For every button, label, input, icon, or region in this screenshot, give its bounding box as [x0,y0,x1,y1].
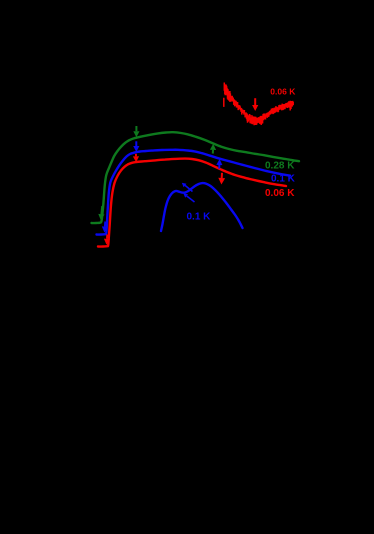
svg-text:0.28 K: 0.28 K [265,161,295,172]
arrow red inset down [254,98,256,105]
arrow blue bottomleft down [104,222,106,227]
arrow green bottomleft down [100,206,103,214]
arrow green right up [212,150,214,154]
arrow red top down [135,154,137,157]
curve red 0.06K main [98,159,286,247]
arrow red bottomleft down [106,235,108,239]
arrow red right down [221,173,223,178]
curve blue inner 0.1K [161,183,243,231]
svg-text:0.1 K: 0.1 K [187,212,212,223]
arrow green top down [135,126,137,131]
arrow blue inner upper diagonal [185,185,192,191]
curve blue 0.1K main [97,150,291,235]
arrow blue top down [135,141,137,146]
arrow blue inner lower diagonal [187,196,195,202]
scatter red 0.06K noisy data [224,83,293,126]
svg-text:0.1 K: 0.1 K [271,173,296,184]
svg-text:0.06 K: 0.06 K [265,188,295,199]
svg-text:0.06 K: 0.06 K [270,86,296,96]
curve green 0.28K main [92,132,300,223]
arrow blue right up [218,165,220,169]
